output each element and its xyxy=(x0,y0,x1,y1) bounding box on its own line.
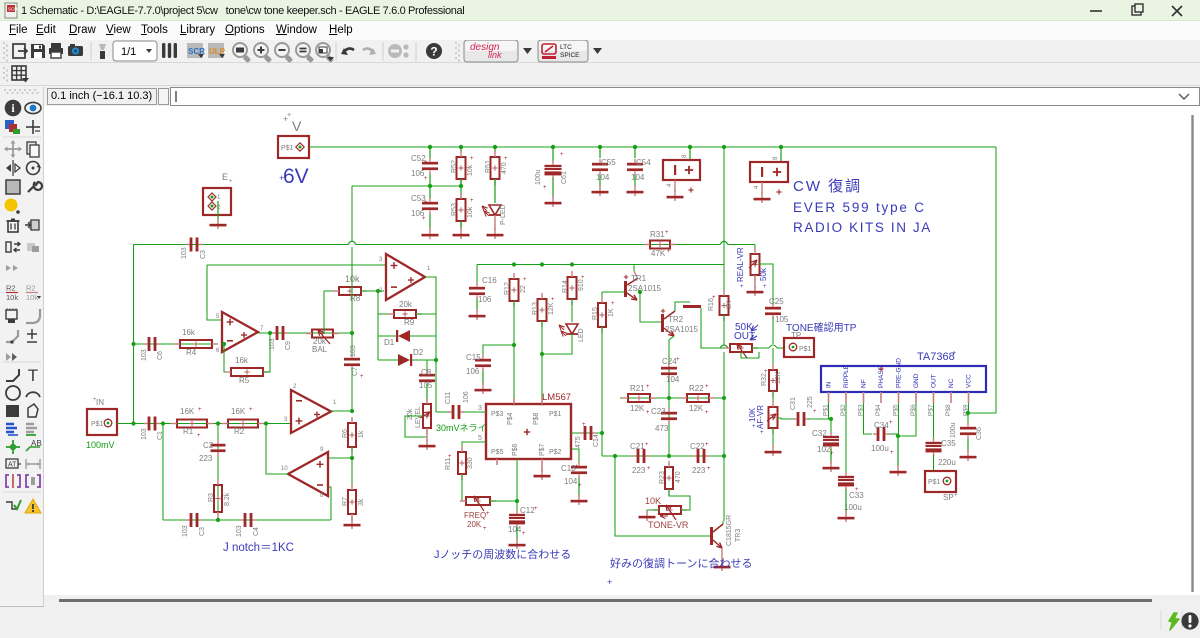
svg-text:3K: 3K xyxy=(726,300,733,309)
svg-text:5: 5 xyxy=(216,314,220,320)
svg-text:R13: R13 xyxy=(532,302,539,315)
svg-text:9: 9 xyxy=(320,447,324,453)
svg-text:CW 復調: CW 復調 xyxy=(793,178,862,195)
svg-text:C21: C21 xyxy=(630,442,645,451)
svg-text:20k: 20k xyxy=(399,300,413,309)
svg-text:104: 104 xyxy=(666,375,680,384)
svg-text:R21: R21 xyxy=(630,384,645,393)
svg-text:?: ? xyxy=(430,45,437,59)
svg-text:10k: 10k xyxy=(26,293,38,302)
svg-text:C22: C22 xyxy=(690,442,705,451)
svg-text:T: T xyxy=(28,366,38,385)
svg-text:100mV: 100mV xyxy=(86,440,115,450)
svg-text:AF-VR: AF-VR xyxy=(756,405,765,429)
svg-text:+: + xyxy=(855,487,859,493)
svg-text:100u: 100u xyxy=(871,444,889,453)
svg-text:+: + xyxy=(575,464,579,470)
svg-text:330: 330 xyxy=(467,457,474,469)
svg-text:6: 6 xyxy=(216,348,220,354)
svg-text:R12: R12 xyxy=(504,282,511,295)
svg-text:C36: C36 xyxy=(976,427,983,440)
svg-text:C55: C55 xyxy=(601,158,616,167)
svg-text:D2: D2 xyxy=(413,348,424,357)
svg-text:LED: LED xyxy=(578,328,585,342)
svg-text:EVER 599 type C: EVER 599 type C xyxy=(793,200,926,215)
svg-text:VCC: VCC xyxy=(966,374,973,388)
svg-text:+: + xyxy=(645,442,649,448)
svg-text:+: + xyxy=(582,422,586,428)
svg-text:16k: 16k xyxy=(235,356,249,365)
svg-text:103: 103 xyxy=(181,247,188,259)
svg-text:C23: C23 xyxy=(651,407,666,416)
svg-text:103: 103 xyxy=(236,525,243,537)
svg-text:R3: R3 xyxy=(208,493,215,502)
svg-text:+: + xyxy=(813,409,817,415)
svg-text:P$2: P$2 xyxy=(549,449,562,456)
svg-text:R2: R2 xyxy=(26,284,36,293)
svg-text:+: + xyxy=(197,433,201,439)
svg-text:3k: 3k xyxy=(358,498,365,506)
svg-text:C16: C16 xyxy=(482,276,497,285)
svg-text:103: 103 xyxy=(350,345,357,357)
svg-text:1/1: 1/1 xyxy=(121,46,136,58)
svg-text:+: + xyxy=(424,200,428,206)
svg-text:NC: NC xyxy=(948,378,955,388)
svg-text:Jノッチの周波数に合わせる: Jノッチの周波数に合わせる xyxy=(434,547,571,561)
svg-text:+: + xyxy=(534,506,538,512)
svg-text:+: + xyxy=(712,295,716,301)
svg-text:C14: C14 xyxy=(593,434,600,447)
svg-text:+: + xyxy=(360,374,364,380)
svg-text:C61: C61 xyxy=(561,171,568,184)
svg-text:+: + xyxy=(486,511,490,517)
svg-text:+: + xyxy=(954,493,958,499)
svg-text:C7: C7 xyxy=(352,367,359,376)
svg-text:5: 5 xyxy=(478,435,482,442)
svg-text:C34: C34 xyxy=(874,421,889,430)
svg-text:220u: 220u xyxy=(938,458,956,467)
svg-text:R9: R9 xyxy=(404,318,415,327)
svg-text:10: 10 xyxy=(281,466,288,472)
svg-text:+: + xyxy=(422,216,426,222)
svg-text:C2: C2 xyxy=(203,441,214,450)
svg-text:C13: C13 xyxy=(561,464,576,473)
svg-text:GND: GND xyxy=(913,373,920,388)
svg-text:R5: R5 xyxy=(239,376,250,385)
svg-text:+: + xyxy=(705,384,709,390)
svg-text:1: 1 xyxy=(333,400,337,406)
svg-text:R53: R53 xyxy=(451,203,458,216)
svg-text:12K: 12K xyxy=(689,404,704,413)
svg-text:470: 470 xyxy=(675,471,682,483)
svg-text:+: + xyxy=(504,156,508,162)
svg-text:16k: 16k xyxy=(182,328,196,337)
svg-text:8.2k: 8.2k xyxy=(224,492,231,506)
svg-text:+: + xyxy=(448,454,452,460)
svg-text:+: + xyxy=(952,350,956,357)
svg-text:2SA1015: 2SA1015 xyxy=(628,284,661,293)
svg-text:+: + xyxy=(470,198,474,204)
svg-text:P$1: P$1 xyxy=(91,421,104,428)
svg-text:473: 473 xyxy=(655,424,669,433)
svg-text:106: 106 xyxy=(463,391,470,403)
svg-text:16K: 16K xyxy=(231,407,246,416)
svg-text:+: + xyxy=(764,369,768,375)
svg-text:22: 22 xyxy=(520,285,527,293)
svg-text:+: + xyxy=(198,407,202,413)
svg-text:102: 102 xyxy=(817,445,831,454)
svg-text:+: + xyxy=(523,277,527,283)
svg-text:C32: C32 xyxy=(812,429,827,438)
svg-text:+: + xyxy=(647,466,651,472)
svg-text:P-LED: P-LED xyxy=(500,204,507,225)
svg-text:P$7: P$7 xyxy=(539,443,546,456)
svg-text:104: 104 xyxy=(564,477,578,486)
svg-text:P$4: P$4 xyxy=(507,412,514,425)
svg-text:100u: 100u xyxy=(844,503,862,512)
svg-text:C11: C11 xyxy=(445,392,452,404)
svg-text:好みの復調トーンに合わせる: 好みの復調トーンに合わせる xyxy=(610,556,752,570)
svg-text:R15: R15 xyxy=(592,307,599,320)
svg-text:OUT: OUT xyxy=(931,374,938,388)
svg-text:475: 475 xyxy=(575,436,582,448)
svg-text:106: 106 xyxy=(478,295,492,304)
svg-text:+: + xyxy=(705,410,709,416)
svg-text:D1: D1 xyxy=(384,338,395,347)
svg-text:3: 3 xyxy=(478,405,482,412)
svg-text:R51: R51 xyxy=(485,160,492,173)
svg-text:1k: 1k xyxy=(358,430,365,438)
svg-text:47K: 47K xyxy=(651,249,666,258)
svg-text:C3: C3 xyxy=(200,250,207,259)
svg-text:V: V xyxy=(292,118,302,134)
svg-text:LM567: LM567 xyxy=(542,392,571,403)
svg-text:223: 223 xyxy=(199,454,213,463)
svg-text:R31: R31 xyxy=(650,230,665,239)
svg-text:+: + xyxy=(665,230,669,236)
svg-text:RIPPLE: RIPPLE xyxy=(843,364,850,388)
svg-text:C4: C4 xyxy=(253,527,260,536)
svg-text:50k: 50k xyxy=(759,267,768,281)
svg-text:FREQ: FREQ xyxy=(464,511,486,520)
svg-text:RADIO KITS IN JA: RADIO KITS IN JA xyxy=(793,220,932,235)
svg-text:PRE-GND: PRE-GND xyxy=(896,358,903,388)
svg-text:10k: 10k xyxy=(467,164,474,176)
svg-text:SP: SP xyxy=(943,493,954,502)
svg-text:C31: C31 xyxy=(790,397,797,410)
svg-text:TR3: TR3 xyxy=(735,529,742,542)
svg-text:R14: R14 xyxy=(562,280,569,293)
svg-text:+: + xyxy=(740,284,744,290)
svg-text:REAL-VR: REAL-VR xyxy=(736,247,745,282)
svg-text:470: 470 xyxy=(501,162,508,174)
svg-text:SPICE: SPICE xyxy=(560,52,580,59)
svg-text:12K: 12K xyxy=(548,302,555,315)
svg-text:+: + xyxy=(581,275,585,281)
svg-text:C9: C9 xyxy=(285,341,292,350)
svg-text:3: 3 xyxy=(379,257,383,263)
svg-text:link: link xyxy=(488,50,502,60)
svg-text:IN: IN xyxy=(96,398,104,407)
svg-text:P$8: P$8 xyxy=(533,412,540,425)
svg-text:AB: AB xyxy=(31,439,42,448)
svg-text:3: 3 xyxy=(284,417,288,423)
svg-text:C15: C15 xyxy=(466,353,481,362)
svg-text:1: 1 xyxy=(217,195,221,201)
svg-text:+: + xyxy=(249,407,253,413)
svg-text:20K: 20K xyxy=(467,520,482,529)
svg-text:P$1: P$1 xyxy=(799,346,812,353)
svg-text:10k: 10k xyxy=(6,293,18,302)
svg-text:+: + xyxy=(890,450,894,456)
svg-text:R22: R22 xyxy=(689,384,704,393)
svg-text:+: + xyxy=(483,526,487,532)
svg-text:LTC: LTC xyxy=(560,44,572,51)
svg-text:2: 2 xyxy=(293,384,297,390)
svg-text:C25: C25 xyxy=(769,297,784,306)
svg-text:7: 7 xyxy=(260,326,264,332)
svg-text:106: 106 xyxy=(466,367,480,376)
svg-text:R2: R2 xyxy=(234,427,245,436)
svg-text:+: + xyxy=(93,397,97,403)
svg-text:+: + xyxy=(229,179,233,185)
svg-text:LEVEL: LEVEL xyxy=(415,406,422,428)
svg-text:C12: C12 xyxy=(520,506,535,515)
svg-text:+: + xyxy=(889,420,893,426)
svg-text:+: + xyxy=(676,357,680,363)
svg-text:100u: 100u xyxy=(535,169,542,185)
svg-text:8: 8 xyxy=(682,154,688,158)
svg-text:P$8: P$8 xyxy=(945,404,952,416)
svg-text:C54: C54 xyxy=(636,158,651,167)
svg-text:+: + xyxy=(667,249,671,255)
svg-text:1K: 1K xyxy=(608,308,615,317)
svg-text:30mVネライ: 30mVネライ xyxy=(436,423,487,433)
svg-text:104: 104 xyxy=(508,525,522,534)
svg-text:104: 104 xyxy=(631,173,645,182)
svg-text:103: 103 xyxy=(269,338,276,350)
svg-text:P$1: P$1 xyxy=(928,479,941,486)
svg-text:TONE-VR: TONE-VR xyxy=(648,520,689,530)
svg-text:223: 223 xyxy=(632,466,646,475)
svg-text:P$1: P$1 xyxy=(549,411,562,418)
svg-text:4: 4 xyxy=(667,183,673,187)
svg-text:TA7368: TA7368 xyxy=(917,351,955,363)
svg-text:+: + xyxy=(763,284,767,290)
svg-text:16K: 16K xyxy=(180,407,195,416)
svg-text:10k: 10k xyxy=(467,206,474,218)
svg-text:105: 105 xyxy=(419,381,433,390)
svg-text:C1815GR: C1815GR xyxy=(726,515,733,546)
svg-text:+: + xyxy=(522,531,526,537)
svg-text:12K: 12K xyxy=(630,404,645,413)
svg-text:8: 8 xyxy=(773,156,779,160)
svg-text:+: + xyxy=(707,466,711,472)
svg-text:+: + xyxy=(551,297,555,303)
svg-text:+: + xyxy=(560,152,564,158)
svg-text:+: + xyxy=(646,410,650,416)
svg-text:104: 104 xyxy=(596,173,610,182)
svg-text:100u: 100u xyxy=(950,422,957,438)
svg-text:P$3: P$3 xyxy=(491,411,504,418)
svg-text:225: 225 xyxy=(807,396,814,408)
svg-text:E: E xyxy=(222,172,228,182)
svg-text:R23: R23 xyxy=(659,471,666,484)
svg-text:SCH: SCH xyxy=(8,7,18,12)
svg-text:103: 103 xyxy=(141,428,148,440)
svg-text:P$1: P$1 xyxy=(281,145,294,152)
svg-text:P$5: P$5 xyxy=(491,449,504,456)
svg-text:BAL: BAL xyxy=(312,345,328,354)
svg-text:+: + xyxy=(543,185,547,191)
svg-text:J notch＝1KC: J notch＝1KC xyxy=(223,542,294,554)
svg-text:IN: IN xyxy=(826,381,833,388)
svg-text:20k: 20k xyxy=(407,408,414,420)
svg-text:C35: C35 xyxy=(941,439,956,448)
svg-text:P$4: P$4 xyxy=(875,404,882,416)
svg-text:1: 1 xyxy=(427,266,431,272)
svg-text:C24: C24 xyxy=(662,357,677,366)
svg-text:2SA1015: 2SA1015 xyxy=(665,325,698,334)
svg-text:+: + xyxy=(470,156,474,162)
svg-text:+: + xyxy=(760,430,764,436)
svg-text:4: 4 xyxy=(754,185,760,189)
svg-text:+: + xyxy=(424,160,428,166)
svg-text:C8: C8 xyxy=(421,368,432,377)
svg-text:TR2: TR2 xyxy=(668,315,684,324)
svg-text:103: 103 xyxy=(182,525,189,537)
svg-text:+: + xyxy=(287,112,291,119)
svg-text:R52: R52 xyxy=(451,160,458,173)
svg-text:C6: C6 xyxy=(157,351,164,360)
svg-text:NF: NF xyxy=(861,379,868,388)
svg-text:6V: 6V xyxy=(283,165,309,188)
svg-text:+: + xyxy=(646,384,650,390)
svg-text:R6: R6 xyxy=(342,429,349,438)
svg-text:R2: R2 xyxy=(6,284,16,293)
svg-text:TR1: TR1 xyxy=(631,274,647,283)
svg-text:+: + xyxy=(705,442,709,448)
svg-text:223: 223 xyxy=(692,466,706,475)
svg-text:R7: R7 xyxy=(342,497,349,506)
svg-text:10K: 10K xyxy=(645,496,661,506)
svg-text:R4: R4 xyxy=(186,348,197,357)
svg-text:+: + xyxy=(607,577,612,587)
svg-text:+: + xyxy=(611,301,615,307)
svg-text:C3: C3 xyxy=(199,527,206,536)
svg-text:AT: AT xyxy=(8,462,17,469)
svg-text:R1: R1 xyxy=(183,427,194,436)
svg-text:P$6: P$6 xyxy=(512,443,519,456)
svg-text:+: + xyxy=(424,176,428,182)
svg-text:103: 103 xyxy=(141,349,148,361)
svg-text:106: 106 xyxy=(411,169,425,178)
svg-text:12K: 12K xyxy=(775,371,782,384)
